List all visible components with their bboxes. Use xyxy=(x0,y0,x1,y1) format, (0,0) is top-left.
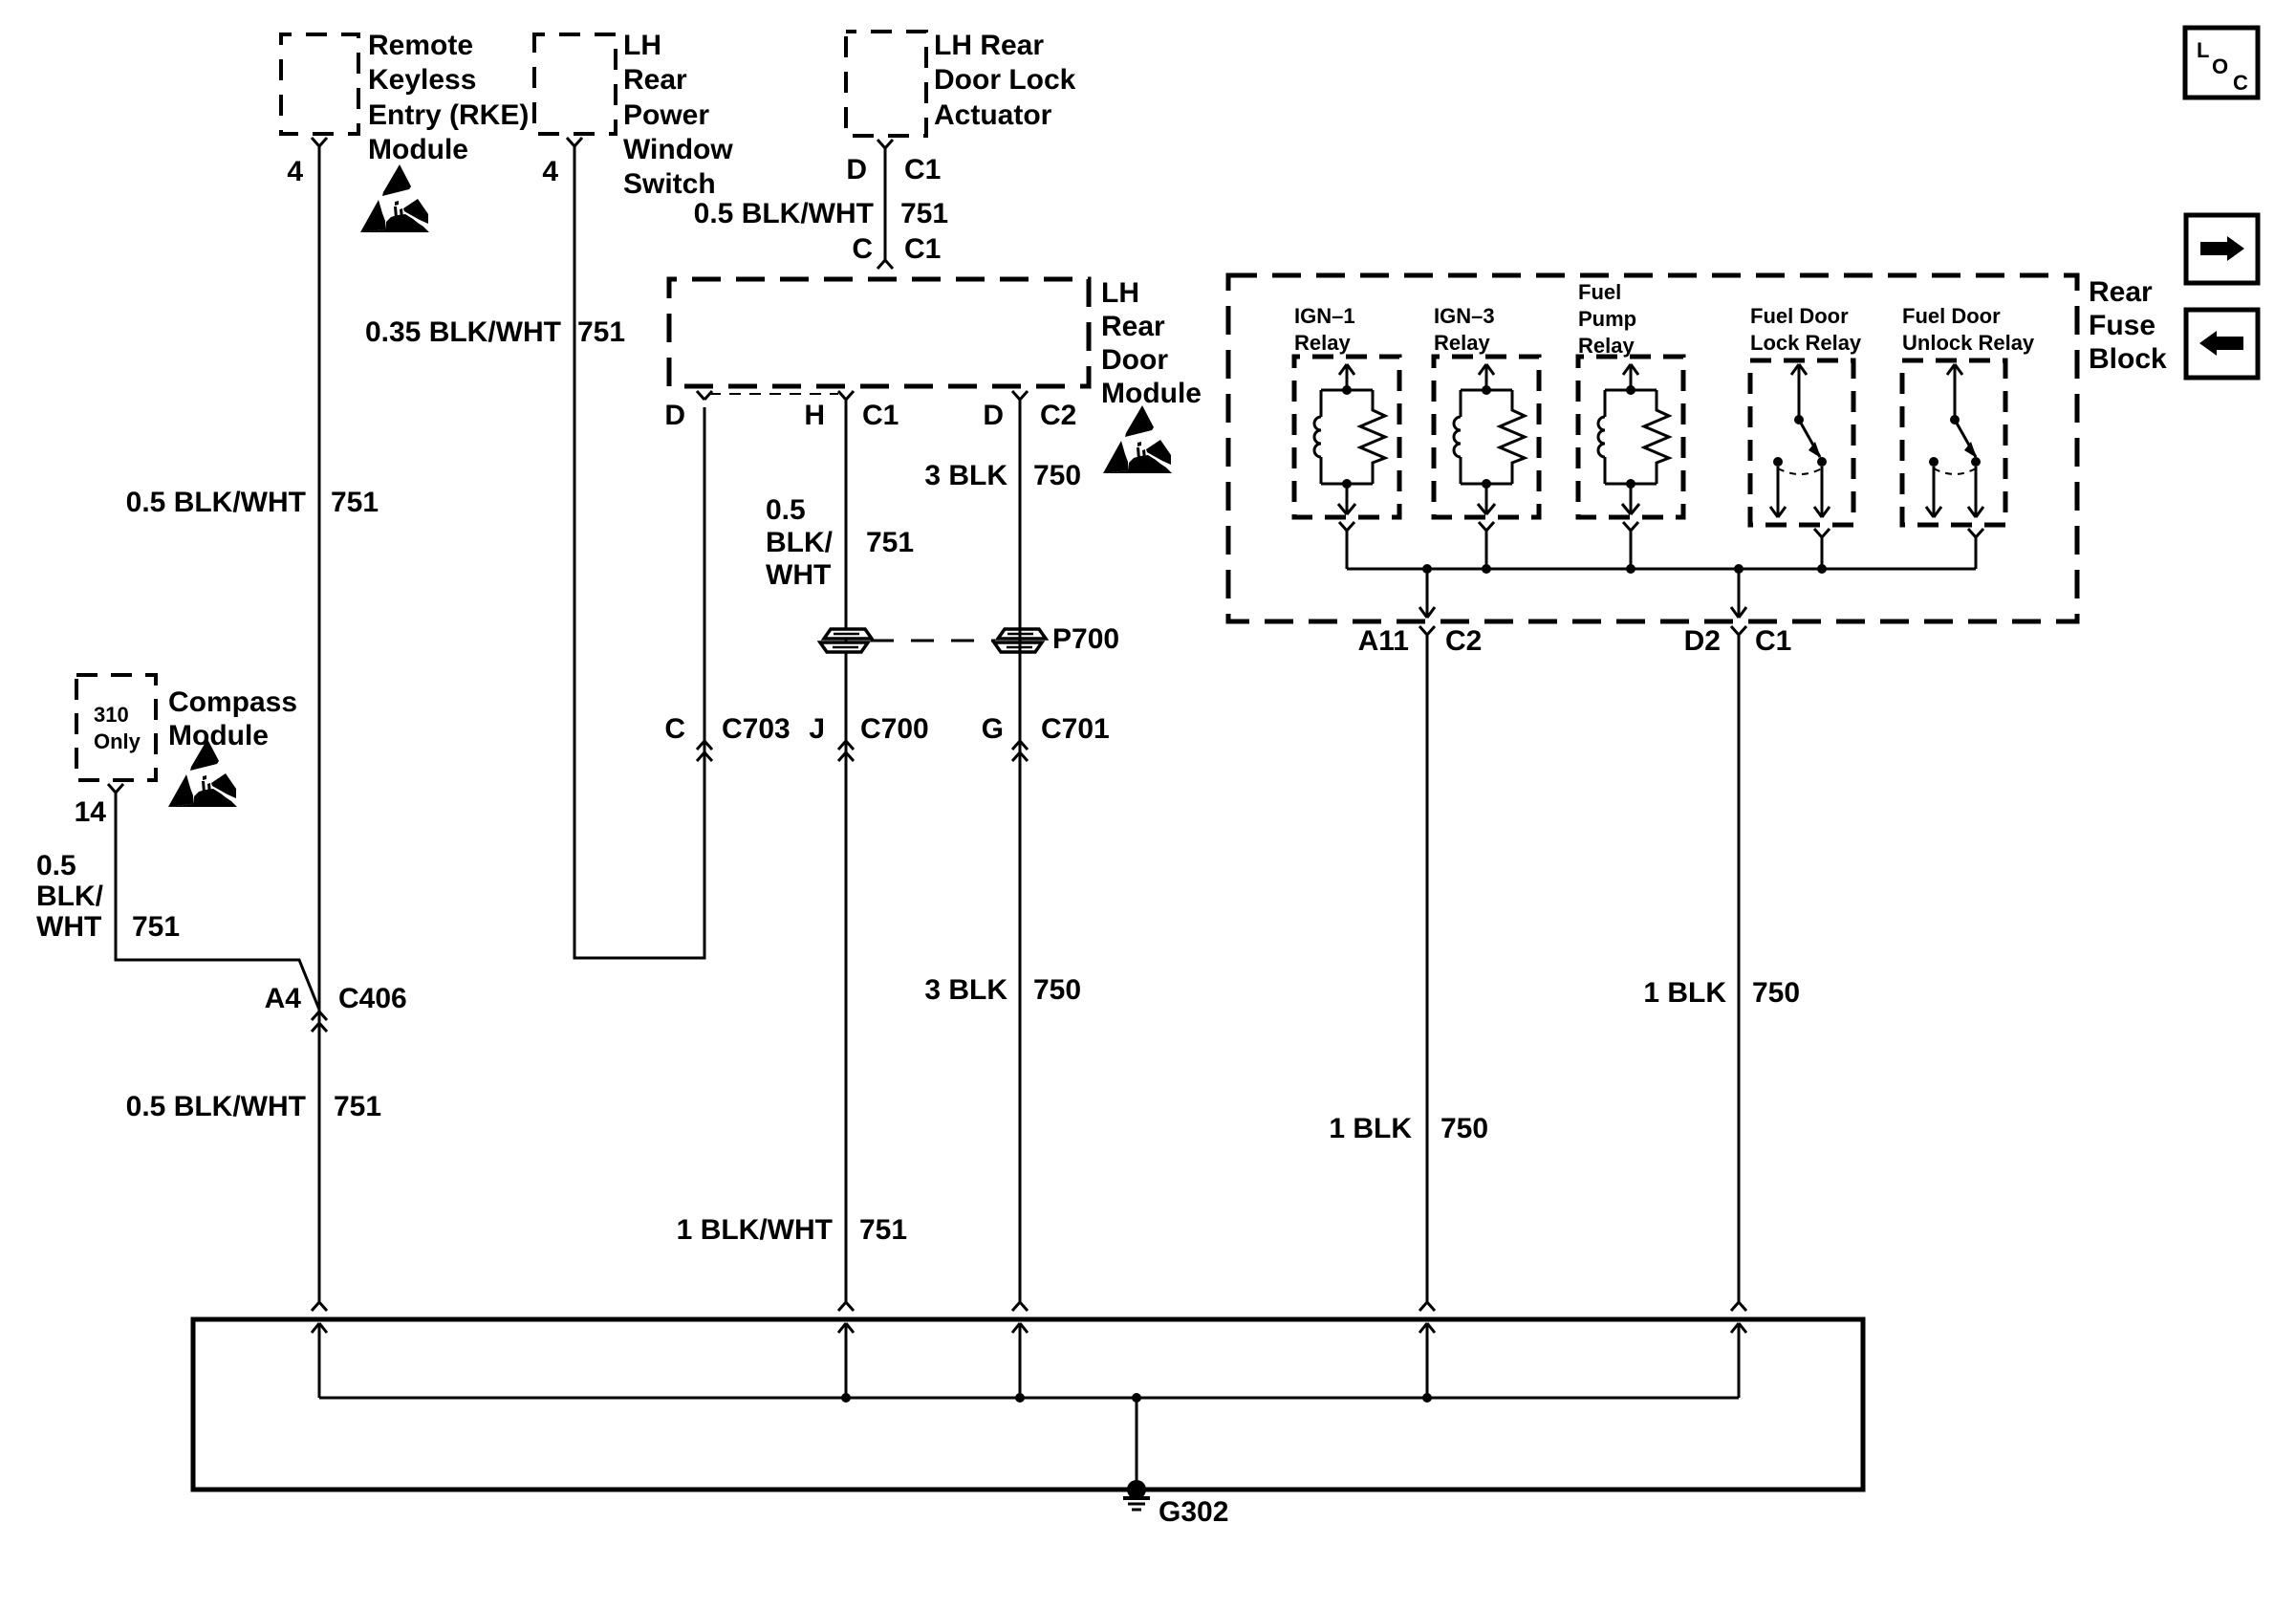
svg-text:750: 750 xyxy=(1033,460,1081,491)
svg-text:Block: Block xyxy=(2089,343,2167,375)
relay resistor (right branch) xyxy=(1360,390,1385,484)
wire: compass module to C406 (0.5 BLK/WHT 751) xyxy=(116,793,319,1010)
svg-text:3 BLK: 3 BLK xyxy=(924,460,1007,491)
svg-text:C701: C701 xyxy=(1041,713,1110,745)
svg-text:C2: C2 xyxy=(1445,625,1482,657)
ground G302 stem and symbol xyxy=(1132,1393,1141,1403)
svg-text:C: C xyxy=(2233,71,2248,95)
wire: actuator to door module (0.5 BLK/WHT 751) xyxy=(884,148,887,260)
svg-text:Power: Power xyxy=(623,99,709,131)
relay contact terminals (down arrows) xyxy=(1933,467,1936,517)
svg-text:Door: Door xyxy=(1101,344,1168,376)
svg-text:BLK/: BLK/ xyxy=(36,881,104,912)
svg-text:Unlock Relay: Unlock Relay xyxy=(1902,331,2035,355)
ground entry (A11 wire) xyxy=(1419,1302,1427,1311)
svg-text:C1: C1 xyxy=(862,400,899,431)
svg-text:0.5: 0.5 xyxy=(766,494,806,526)
svg-text:H: H xyxy=(804,400,825,431)
LH rear door module box xyxy=(669,279,1089,386)
svg-text:Fuse: Fuse xyxy=(2089,310,2155,341)
svg-text:4: 4 xyxy=(287,156,303,187)
relay box xyxy=(1750,360,1853,525)
junction dots on bus xyxy=(1422,564,1432,574)
svg-text:751: 751 xyxy=(577,316,625,348)
svg-text:751: 751 xyxy=(900,198,948,229)
grommet link dashed xyxy=(871,640,995,642)
wire: door module H to ground bus (0.5 BLK/WHT 751) xyxy=(845,400,848,1302)
svg-text:0.5 BLK/WHT: 0.5 BLK/WHT xyxy=(694,198,874,229)
svg-text:0.5: 0.5 xyxy=(36,850,76,881)
ground entry (H wire) xyxy=(838,1302,846,1311)
LH rear power window switch box xyxy=(534,34,616,134)
ESD symbol (door module) xyxy=(1103,405,1172,473)
svg-text:1 BLK: 1 BLK xyxy=(1643,977,1726,1009)
relay switch: common up arrow xyxy=(1798,366,1801,420)
wire: window switch to connector C703 (0.35 BLK/WHT 751) xyxy=(574,146,704,958)
relay bottom node and down arrow xyxy=(1321,483,1373,486)
relay output pin xyxy=(1479,522,1486,531)
svg-text:Keyless: Keyless xyxy=(368,64,476,96)
arrow legend (left) xyxy=(2186,310,2258,378)
svg-text:C406: C406 xyxy=(338,983,407,1014)
svg-text:751: 751 xyxy=(334,1091,381,1122)
svg-text:310: 310 xyxy=(94,703,129,727)
svg-text:Module: Module xyxy=(368,134,468,165)
LH rear door lock actuator box xyxy=(846,32,926,136)
svg-text:751: 751 xyxy=(331,487,379,518)
svg-text:Entry (RKE): Entry (RKE) xyxy=(368,99,529,131)
compass module box (310 only) xyxy=(76,675,156,780)
svg-text:Switch: Switch xyxy=(623,168,716,200)
relay coil (left branch) xyxy=(1321,389,1373,392)
svg-text:C703: C703 xyxy=(722,713,791,745)
svg-text:Fuel Door: Fuel Door xyxy=(1750,304,1849,328)
svg-text:A4: A4 xyxy=(265,983,302,1014)
relay box xyxy=(1902,360,2005,525)
relay output pin xyxy=(1814,529,1822,537)
svg-text:0.5 BLK/WHT: 0.5 BLK/WHT xyxy=(126,487,306,518)
compass pin 14 xyxy=(108,784,116,793)
LOC legend box xyxy=(2185,28,2258,98)
relay bottom node and down arrow xyxy=(1605,483,1657,486)
relay internal: top node and up arrow xyxy=(1485,364,1488,390)
window switch pin 4 xyxy=(567,138,574,146)
relay box xyxy=(1294,357,1399,517)
svg-text:751: 751 xyxy=(859,1214,907,1246)
svg-text:D: D xyxy=(983,400,1004,431)
svg-text:D: D xyxy=(664,400,685,431)
svg-text:C2: C2 xyxy=(1040,400,1076,431)
svg-text:Relay: Relay xyxy=(1578,334,1635,358)
svg-text:Module: Module xyxy=(1101,378,1202,409)
svg-text:Door Lock: Door Lock xyxy=(934,64,1076,96)
svg-text:0.5 BLK/WHT: 0.5 BLK/WHT xyxy=(126,1091,306,1122)
svg-text:C700: C700 xyxy=(860,713,929,745)
relay bottom node and down arrow xyxy=(1461,483,1512,486)
relay box xyxy=(1578,357,1683,517)
svg-text:Relay: Relay xyxy=(1434,331,1490,355)
ESD symbol (compass) xyxy=(168,739,237,807)
svg-text:A11: A11 xyxy=(1358,625,1409,657)
relay contact arc (dashed) xyxy=(1778,468,1822,474)
svg-text:750: 750 xyxy=(1752,977,1800,1009)
ground bus inner wire xyxy=(319,1397,1739,1400)
rear fuse block box xyxy=(1228,275,2077,621)
relay output pin xyxy=(1968,529,1976,537)
svg-text:Rear: Rear xyxy=(2089,276,2153,308)
svg-text:D: D xyxy=(846,154,867,185)
wire: fuse block D2 to ground bus (1 BLK 750) xyxy=(1738,635,1741,1302)
svg-text:BLK/: BLK/ xyxy=(766,527,834,558)
svg-text:Pump: Pump xyxy=(1578,307,1636,331)
svg-text:J: J xyxy=(809,713,825,745)
arrow legend (right) xyxy=(2186,215,2258,283)
svg-text:751: 751 xyxy=(866,527,914,558)
door module pin H connector C1 xyxy=(838,391,846,400)
svg-text:D2: D2 xyxy=(1684,625,1721,657)
relay switch blade (diagonal with arrowhead) xyxy=(1799,420,1820,457)
svg-text:Actuator: Actuator xyxy=(934,99,1052,131)
ground entry (D/C2 wire) xyxy=(1012,1302,1020,1311)
relay output pin xyxy=(1623,522,1631,531)
relay resistor (right branch) xyxy=(1644,390,1669,484)
svg-text:G: G xyxy=(982,713,1004,745)
remote keyless entry module box xyxy=(281,34,358,134)
svg-text:L: L xyxy=(2197,38,2209,62)
svg-text:Compass: Compass xyxy=(168,686,297,718)
svg-text:0.35 BLK/WHT: 0.35 BLK/WHT xyxy=(365,316,561,348)
wire: fuse block A11 to ground bus (1 BLK 750) xyxy=(1426,635,1429,1302)
svg-text:750: 750 xyxy=(1440,1113,1488,1144)
ground entry (RKE wire) xyxy=(312,1302,319,1311)
relay resistor (right branch) xyxy=(1500,390,1525,484)
grommet P700 (right) xyxy=(998,629,1046,639)
ground entry (D2 wire) xyxy=(1731,1302,1739,1311)
svg-text:Rear: Rear xyxy=(1101,311,1165,342)
svg-text:C: C xyxy=(664,713,685,745)
svg-text:750: 750 xyxy=(1033,974,1081,1006)
svg-text:C: C xyxy=(852,233,873,265)
svg-text:LH Rear: LH Rear xyxy=(934,30,1044,61)
relay contact terminals (down arrows) xyxy=(1777,467,1780,517)
relay switch: common up arrow xyxy=(1954,366,1957,420)
relay switch blade (diagonal with arrowhead) xyxy=(1955,420,1976,457)
ground bus box G302 xyxy=(193,1319,1863,1490)
fuse block exit A11/C2 xyxy=(1426,569,1429,618)
RKE pin 4 xyxy=(312,138,319,146)
svg-text:Fuel: Fuel xyxy=(1578,280,1621,304)
svg-text:C1: C1 xyxy=(904,154,941,185)
relay internal: top node and up arrow xyxy=(1346,364,1349,390)
fuse block exit D2/C1 xyxy=(1738,569,1741,618)
svg-text:1 BLK: 1 BLK xyxy=(1329,1113,1412,1144)
svg-text:WHT: WHT xyxy=(36,911,101,943)
ESD symbol (RKE) xyxy=(360,164,429,232)
svg-text:Window: Window xyxy=(623,134,733,165)
svg-text:Relay: Relay xyxy=(1294,331,1351,355)
svg-text:751: 751 xyxy=(132,911,180,943)
relay box xyxy=(1434,357,1539,517)
relay contact arc (dashed) xyxy=(1934,468,1976,474)
svg-text:Lock Relay: Lock Relay xyxy=(1750,331,1862,355)
svg-text:Module: Module xyxy=(168,720,269,751)
svg-text:Only: Only xyxy=(94,729,141,753)
svg-text:LH: LH xyxy=(1101,277,1139,309)
svg-text:3 BLK: 3 BLK xyxy=(924,974,1007,1006)
svg-text:O: O xyxy=(2212,54,2228,78)
svg-text:P700: P700 xyxy=(1052,623,1119,655)
wire: door module D/C2 to ground bus (3 BLK 750) xyxy=(1019,400,1022,1302)
fuse block internal bus wire xyxy=(1347,568,1976,571)
svg-text:LH: LH xyxy=(623,30,661,61)
door module pin D xyxy=(697,391,704,400)
svg-text:IGN–3: IGN–3 xyxy=(1434,304,1495,328)
svg-text:4: 4 xyxy=(542,156,558,187)
grommet P700 (left) xyxy=(824,629,872,639)
svg-text:G302: G302 xyxy=(1159,1496,1228,1528)
svg-text:Remote: Remote xyxy=(368,30,473,61)
relay coil (left branch) xyxy=(1461,389,1512,392)
svg-text:C1: C1 xyxy=(904,233,941,265)
wire: RKE pin 4 to ground bus (0.5 BLK/WHT 751) xyxy=(318,146,321,1302)
svg-text:IGN–1: IGN–1 xyxy=(1294,304,1355,328)
connector link dashed line xyxy=(709,393,838,395)
svg-text:1 BLK/WHT: 1 BLK/WHT xyxy=(677,1214,833,1246)
actuator pin D connector C1 xyxy=(877,140,885,148)
relay coil (left branch) xyxy=(1605,389,1657,392)
door module pin D connector C2 xyxy=(1012,391,1020,400)
svg-text:WHT: WHT xyxy=(766,559,831,591)
relay output pin xyxy=(1339,522,1347,531)
svg-text:Fuel Door: Fuel Door xyxy=(1902,304,2001,328)
svg-text:14: 14 xyxy=(75,796,107,828)
relay internal: top node and up arrow xyxy=(1630,364,1633,390)
svg-text:C1: C1 xyxy=(1755,625,1791,657)
svg-text:Rear: Rear xyxy=(623,64,687,96)
